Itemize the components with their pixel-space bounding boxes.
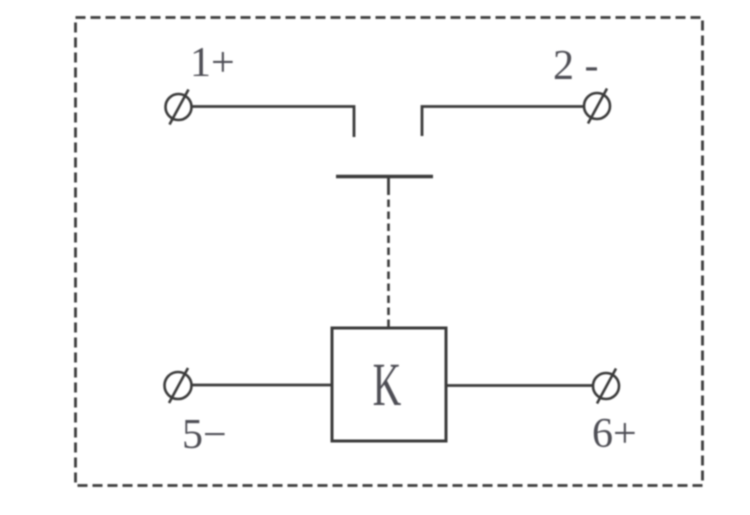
svg-text:1+: 1+ (190, 40, 235, 86)
svg-text:2 -: 2 - (553, 43, 599, 89)
svg-text:5−: 5− (182, 412, 227, 458)
wire terminal 5 to coil (192, 384, 333, 387)
wire coil to terminal 6 (446, 384, 593, 387)
contact armature bar (336, 175, 433, 178)
wire from terminal 1 (192, 107, 355, 138)
dashed actuator link stub (387, 176, 390, 195)
svg-text:6+: 6+ (592, 411, 637, 457)
wire from terminal 2 (422, 107, 584, 137)
dashed actuator link (387, 200, 390, 329)
terminal 1 circle (166, 90, 192, 125)
relay outline dashed border (76, 18, 703, 486)
terminal 2 circle (584, 89, 610, 124)
svg-text:K: K (373, 352, 402, 420)
coil K box (332, 328, 446, 441)
terminal 5 circle (165, 368, 192, 403)
terminal 6 circle (593, 369, 619, 404)
